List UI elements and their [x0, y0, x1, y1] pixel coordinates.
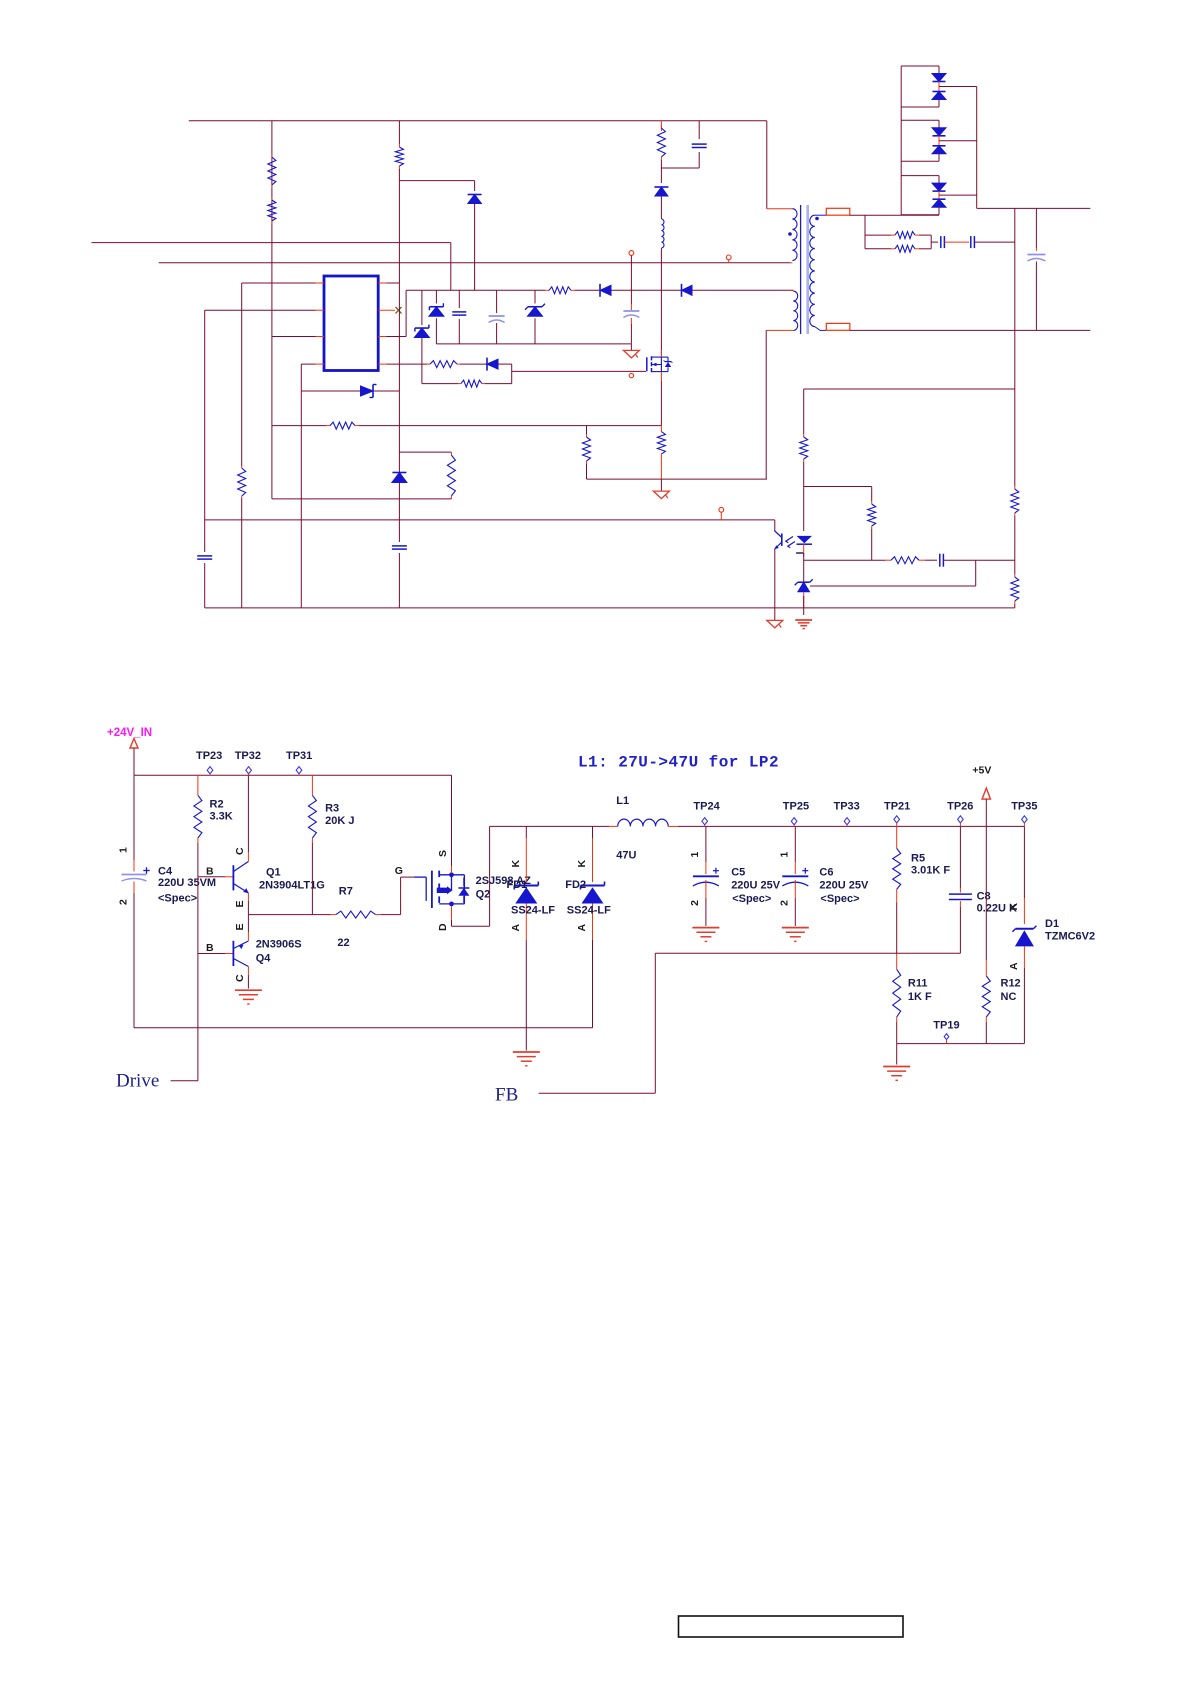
zener opto reference	[795, 579, 813, 592]
wire stack diode col 3b	[938, 207, 940, 215]
test point TP35	[1022, 816, 1028, 823]
wire R3 lower	[311, 843, 313, 915]
wire pin5 line mid	[460, 363, 487, 365]
resistor source sense	[657, 426, 665, 480]
wire secondary bottom lead b	[820, 329, 826, 331]
wire led col d	[803, 592, 805, 608]
svg-text:TP23: TP23	[196, 750, 222, 762]
wire column pin3	[271, 121, 273, 499]
wire comp line c	[943, 559, 1014, 561]
wire TP31 stub	[298, 774, 300, 776]
wire gnd stub	[896, 1044, 898, 1065]
resistor R7	[331, 911, 381, 918]
svg-text:20K J: 20K J	[325, 815, 354, 827]
svg-text:1K F: 1K F	[908, 991, 932, 1003]
wire led col c	[803, 553, 805, 582]
svg-text:220U 25V: 220U 25V	[819, 880, 869, 892]
wire xfmr mid tap	[790, 262, 792, 264]
svg-text:A: A	[576, 924, 588, 932]
wire C4 stub bottom	[133, 882, 135, 894]
wire output line	[678, 825, 1024, 827]
wire clamp col a	[660, 160, 662, 183]
svg-text:C5: C5	[731, 867, 745, 879]
wire C6 bottom	[794, 898, 796, 926]
wire stack diode col 1b	[938, 99, 940, 107]
resistor clamp snubber	[657, 125, 665, 160]
wire aux branch drop b	[474, 204, 476, 291]
wire fb column	[1014, 208, 1016, 486]
wire top input rail	[189, 120, 767, 122]
diode FD1 SS24-LF	[514, 882, 538, 904]
wire C8 bottom	[959, 907, 961, 953]
wire stack tap 2	[939, 140, 977, 142]
svg-text:R12: R12	[1001, 978, 1021, 990]
wire feedback rail right	[359, 425, 661, 427]
wire mosfet source down	[660, 381, 662, 426]
wire out cap column bottom	[1035, 262, 1037, 331]
wire test node mid a	[630, 290, 632, 304]
wire Q4 base lead	[198, 953, 225, 955]
opto phototransistor	[774, 531, 782, 550]
wire polcap drop top	[496, 290, 498, 313]
wire sense col bottom	[586, 464, 588, 479]
wire opamp col b	[803, 487, 805, 532]
ground source sense	[653, 491, 669, 499]
wire schottky2 drop	[421, 338, 423, 384]
wire zener drop top	[534, 290, 536, 303]
svg-text:Q2: Q2	[476, 889, 491, 901]
wire IC pin5 stub right	[378, 363, 386, 365]
wire bottom ground rail	[205, 607, 1015, 609]
svg-text:<Spec>: <Spec>	[732, 893, 771, 905]
schottky diode A	[414, 325, 429, 338]
wire branch col b	[871, 529, 873, 560]
svg-text:SS24-LF: SS24-LF	[511, 905, 555, 917]
svg-text:<Spec>: <Spec>	[158, 893, 197, 905]
svg-text:C6: C6	[819, 867, 833, 879]
capacitor on pin8 column	[392, 546, 407, 549]
wire source return rail	[587, 478, 767, 480]
capacitor cluster electrolytic	[489, 316, 505, 323]
test terminal top	[629, 251, 634, 256]
svg-text:2: 2	[118, 899, 130, 905]
svg-text:47U: 47U	[616, 850, 636, 862]
wire Q2 source	[451, 775, 453, 866]
wire pin6 riser	[405, 290, 407, 336]
capacitor comp	[940, 554, 944, 567]
wire +24 stem	[133, 749, 135, 776]
wire snub loop bottom	[272, 498, 452, 500]
wire stack left column	[900, 66, 902, 215]
resistor comp	[885, 557, 925, 564]
svg-text:TP33: TP33	[834, 801, 860, 813]
wire IC pin1 lead left	[242, 282, 316, 284]
schottky diode B	[429, 303, 444, 316]
wire comp line	[804, 559, 885, 561]
resistor on feedback rail	[326, 422, 359, 429]
wire +5V stem	[985, 799, 987, 826]
wire C4 stub top	[133, 860, 135, 872]
resistor branch	[868, 501, 876, 529]
wire out cap stub	[1035, 248, 1037, 251]
wire IC pin3 lead left	[272, 336, 316, 338]
wire stack diode col 2b	[938, 153, 940, 161]
wire L1 stub right	[668, 825, 678, 827]
wire IC pin1 stub left	[316, 282, 325, 284]
wire snub cap drop top	[698, 121, 700, 139]
resistor on pin1 column	[238, 466, 246, 498]
wire mosfet source stub	[660, 372, 662, 381]
svg-text:TP25: TP25	[783, 801, 809, 813]
wire test node mid b	[630, 304, 632, 310]
wire ground rail bottom	[134, 1027, 593, 1029]
capacitor C8	[949, 894, 972, 899]
wire branch col a	[871, 487, 873, 502]
wire stack diode col 2m	[938, 136, 940, 146]
wire Q4 emitter stub	[247, 932, 249, 941]
wire column pin8 upper	[398, 283, 400, 391]
svg-text:220U 35VM: 220U 35VM	[158, 877, 216, 889]
transformer primary winding upper	[792, 209, 797, 261]
svg-text:TZMC6V2: TZMC6V2	[1045, 931, 1095, 943]
wire sense col top	[586, 426, 588, 434]
rectifier diode 2 lower	[932, 146, 946, 154]
ground R11 node	[883, 1067, 910, 1081]
wire D1 stub bottom	[1023, 946, 1025, 968]
wire gate loop right	[511, 364, 513, 384]
wire IC pin5 lead right	[387, 363, 428, 365]
wire zener tap	[810, 585, 976, 587]
wire FD1 cathode stub	[525, 826, 527, 838]
svg-text:L1: 27U->47U for LP2: L1: 27U->47U for LP2	[578, 754, 779, 772]
wire stack diode col 3a	[938, 176, 940, 184]
wire sec snub row1	[865, 234, 891, 236]
svg-text:K: K	[1008, 903, 1020, 911]
capacitor C5	[693, 868, 719, 886]
terminal long rail	[719, 507, 724, 512]
wire xfmr primary bottom	[766, 329, 793, 331]
wire Q4 collector	[247, 975, 249, 989]
resistor sec snub 1	[891, 232, 919, 239]
winding dot secondary	[815, 217, 819, 221]
wire Q2 drain	[451, 920, 453, 926]
test point TP31	[296, 767, 302, 774]
IC controller box	[324, 276, 378, 371]
winding dot primary	[788, 232, 792, 236]
wire test node lower a	[630, 318, 632, 324]
wire IC pin6 stub right	[378, 336, 386, 338]
wire TP23 stub	[209, 774, 211, 776]
wire stack diode col 1m	[938, 82, 940, 92]
wire IC pin2 stub left	[316, 309, 325, 311]
ground Q4	[235, 990, 262, 1004]
svg-text:D1: D1	[1045, 918, 1059, 930]
wire gate line to mosfet	[512, 370, 647, 372]
svg-text:TP31: TP31	[286, 750, 312, 762]
wire xfmr primary bend	[767, 208, 793, 210]
wire IC pin6 lead right	[387, 336, 407, 338]
wire Q4 collector stub	[247, 967, 249, 976]
ground FD1	[513, 1052, 540, 1066]
resistor R upper on pin3 column	[268, 154, 276, 188]
wire led col e	[803, 596, 805, 615]
wire stack diode col 2a	[938, 120, 940, 128]
svg-text:C8: C8	[977, 891, 991, 903]
wire drain run	[452, 925, 490, 927]
wire fb column mid	[1014, 516, 1016, 574]
test point TP33	[844, 818, 850, 825]
wire R5 bottom	[896, 902, 898, 953]
svg-text:B: B	[206, 942, 214, 954]
wire Q1 emitter	[247, 901, 249, 915]
wire left column upper	[133, 775, 135, 860]
svg-text:E: E	[234, 923, 246, 930]
wire column pin2 upper	[204, 310, 206, 552]
capacitor sec snub 1	[941, 236, 945, 248]
ground opto	[767, 620, 783, 628]
wire column pin8 top	[398, 121, 400, 144]
wire stack box3 top	[901, 175, 939, 177]
resistor fb column lower	[1011, 574, 1019, 604]
svg-text:TP26: TP26	[947, 801, 973, 813]
svg-text:+24V_IN: +24V_IN	[107, 727, 152, 739]
zener diode cluster	[525, 304, 545, 317]
rectifier diode 1 lower	[932, 92, 946, 100]
wire TP35 stub	[1023, 823, 1025, 826]
wire R2 to base	[197, 843, 199, 877]
wire FB riser	[654, 953, 656, 1093]
wire column pin8 mid	[398, 391, 400, 542]
resistor top column	[395, 144, 403, 169]
wire zener tap riser	[975, 560, 977, 586]
svg-text:SS24-LF: SS24-LF	[567, 905, 611, 917]
svg-text:22: 22	[337, 937, 349, 949]
wire IC pin4 stub left	[316, 363, 325, 365]
capacitor sec snub 2	[971, 236, 975, 248]
wire FB horizontal	[655, 952, 960, 954]
resistor R11	[893, 953, 901, 1022]
svg-text:C: C	[234, 847, 246, 855]
wire Q1 collector stub	[247, 852, 249, 862]
wire column pin1 lower	[241, 498, 243, 608]
diode aux branch	[468, 195, 482, 204]
svg-text:K: K	[510, 860, 522, 868]
diode clamp column	[654, 187, 668, 196]
power flag +5V	[982, 788, 990, 799]
wire sec snub out b	[944, 241, 969, 243]
wire TP33 stub	[846, 825, 848, 827]
svg-text:TP21: TP21	[884, 801, 910, 813]
resistor on pin5 line	[427, 361, 460, 368]
svg-text:A: A	[510, 924, 522, 932]
terminal mid tap	[726, 255, 731, 260]
diode D1 TZMC6V2	[1012, 926, 1036, 947]
capacitor clamp snubber	[692, 144, 707, 147]
wire rail-A descender to snubber bus	[450, 243, 452, 291]
wire sec snub out c	[974, 241, 1014, 243]
wire secondary bottom line	[850, 329, 1091, 331]
MOSFET Q2 2SJ598	[432, 871, 470, 908]
wire FD2 anode down	[592, 940, 594, 1028]
svg-text:C: C	[234, 974, 246, 982]
wire sec snub join	[930, 235, 932, 249]
wire polcap drop bottom	[496, 323, 498, 344]
wire Q1 base lead	[198, 876, 225, 878]
wire stack box2 bottom	[901, 160, 939, 162]
opto light arrows	[786, 537, 795, 548]
svg-text:C4: C4	[158, 866, 173, 878]
wire TP26 stub	[959, 823, 961, 826]
wire sec snub drop	[864, 215, 866, 249]
wire flatcap drop bottom	[458, 319, 460, 344]
wire FD1 cathode red	[525, 838, 527, 882]
wire Q1 base stub	[225, 876, 233, 878]
svg-text:+5V: +5V	[972, 765, 991, 777]
diode on pin5 line	[487, 358, 498, 371]
resistor sense divider	[583, 434, 591, 464]
wire blocking diode line	[301, 390, 399, 392]
wire D1 stub top	[1023, 898, 1025, 924]
resistor opto series	[800, 434, 808, 462]
wire gate lead drop	[425, 877, 427, 901]
wire flatcap drop top	[458, 290, 460, 308]
wire opto emitter	[774, 550, 776, 608]
svg-text:A: A	[1008, 962, 1020, 970]
wire R7 to gate corner	[381, 914, 401, 916]
transformer primary winding lower	[793, 291, 797, 330]
svg-text:220U 25V: 220U 25V	[731, 880, 781, 892]
wire gate riser	[400, 877, 402, 915]
svg-text:S: S	[437, 850, 449, 857]
no-connect X on IC pin7	[396, 307, 402, 314]
svg-text:NC: NC	[1001, 991, 1017, 1003]
test point TP26	[958, 816, 964, 823]
wire column pin8 lower	[398, 553, 400, 608]
wire emitter node line	[248, 914, 331, 916]
wire IC pin4 lead left	[301, 363, 315, 365]
wire TP24 stub	[704, 825, 706, 827]
wire sec snub row2b	[919, 248, 931, 250]
svg-text:R5: R5	[911, 853, 925, 865]
wire TP21 stub	[896, 823, 898, 826]
svg-text:TP35: TP35	[1011, 801, 1037, 813]
diode on blocking line	[361, 385, 377, 398]
wire switch node	[490, 825, 609, 827]
wire hv out rail	[977, 207, 1091, 209]
wire clamp bus b	[575, 289, 599, 291]
test point TP21	[894, 816, 900, 823]
inductor L1	[618, 819, 669, 826]
wire opamp col a	[803, 462, 805, 487]
transistor Q1 2N3904	[233, 862, 248, 894]
wire Q1 collector	[247, 775, 249, 852]
wire R12 top	[985, 826, 987, 960]
wire TP32 stub	[248, 774, 250, 776]
wire FD2 anode red	[592, 904, 594, 941]
wire input line B	[159, 262, 791, 264]
resistor R5	[893, 826, 901, 902]
ground C5	[692, 928, 719, 942]
wire C6 stub bottom	[794, 880, 796, 898]
power flag +24V_IN	[130, 739, 138, 749]
resistor gate loop	[458, 380, 485, 387]
rectifier diode 3 upper	[932, 183, 946, 191]
svg-text:FD2: FD2	[565, 879, 586, 891]
svg-text:1: 1	[689, 852, 701, 858]
resistor on clamp bus	[545, 287, 575, 294]
wire D1 bottom	[1023, 968, 1025, 1044]
transistor Q4 2N3906	[233, 941, 248, 967]
wire column pin2 lower	[204, 563, 206, 608]
wire xfmr primary feed	[766, 121, 768, 209]
wire D1 top	[1023, 826, 1025, 898]
svg-text:<Spec>: <Spec>	[820, 893, 859, 905]
wire clamp bus a	[406, 289, 545, 291]
svg-text:R7: R7	[339, 886, 353, 898]
wire C8 stub top	[959, 888, 961, 893]
wire long mid rail	[205, 519, 775, 521]
wire FD2 cathode stub	[592, 826, 594, 838]
wire opamp col top	[803, 389, 805, 434]
svg-text:G: G	[395, 865, 403, 877]
capacitor output electrolytic	[1027, 255, 1045, 262]
wire L1 stub left	[609, 825, 618, 827]
diode FD2 SS24-LF	[581, 882, 605, 904]
wire Q1 emitter stub	[247, 893, 249, 901]
svg-text:1: 1	[778, 852, 790, 858]
wire drain riser	[489, 826, 491, 926]
wire Q4 emitter	[247, 915, 249, 932]
rectifier diode 1 upper	[932, 74, 946, 82]
wire C6 stub top	[794, 862, 796, 874]
wire C5 top	[705, 826, 707, 862]
wire aux branch	[399, 180, 474, 182]
wire snub cap drop bottom	[698, 152, 700, 168]
diode clamp 2	[682, 284, 693, 297]
wire IC pin8 stub right	[378, 282, 386, 284]
wire sec snub row2	[865, 248, 891, 250]
ground reference	[795, 620, 812, 629]
wire comp line b	[925, 559, 937, 561]
wire gate lead blue	[414, 876, 427, 878]
capacitor on pin2 column	[197, 556, 212, 559]
wire fb column bottom	[1014, 604, 1016, 608]
wire IC pin8 lead right	[387, 282, 400, 284]
wire clamp col b	[660, 196, 662, 219]
capacitor C4	[122, 867, 150, 881]
wire xfmr lower feed	[790, 289, 793, 291]
wire terminal stub	[728, 260, 730, 263]
ground clamp node	[623, 350, 639, 358]
wire Q2 drain stub	[451, 906, 453, 920]
wire stack box2 top	[901, 119, 939, 121]
wire schottky1 drop top	[435, 290, 437, 303]
resistor R2	[194, 775, 202, 843]
svg-text:2: 2	[778, 900, 790, 906]
wire sec snub out a	[931, 241, 938, 243]
wire FD2 cathode red	[592, 838, 594, 882]
svg-text:Q1: Q1	[266, 867, 281, 879]
wire gnd node line	[897, 1043, 1025, 1045]
svg-text:2N3904LT1G: 2N3904LT1G	[259, 880, 325, 892]
capacitor cluster flat	[452, 312, 466, 315]
svg-text:3.3K: 3.3K	[210, 811, 233, 823]
wire aux branch drop	[474, 181, 476, 191]
wire TP19 stub	[946, 1040, 948, 1044]
transformer secondary winding	[810, 215, 815, 326]
wire stack output column	[976, 87, 978, 209]
svg-text:TP19: TP19	[933, 1020, 959, 1032]
